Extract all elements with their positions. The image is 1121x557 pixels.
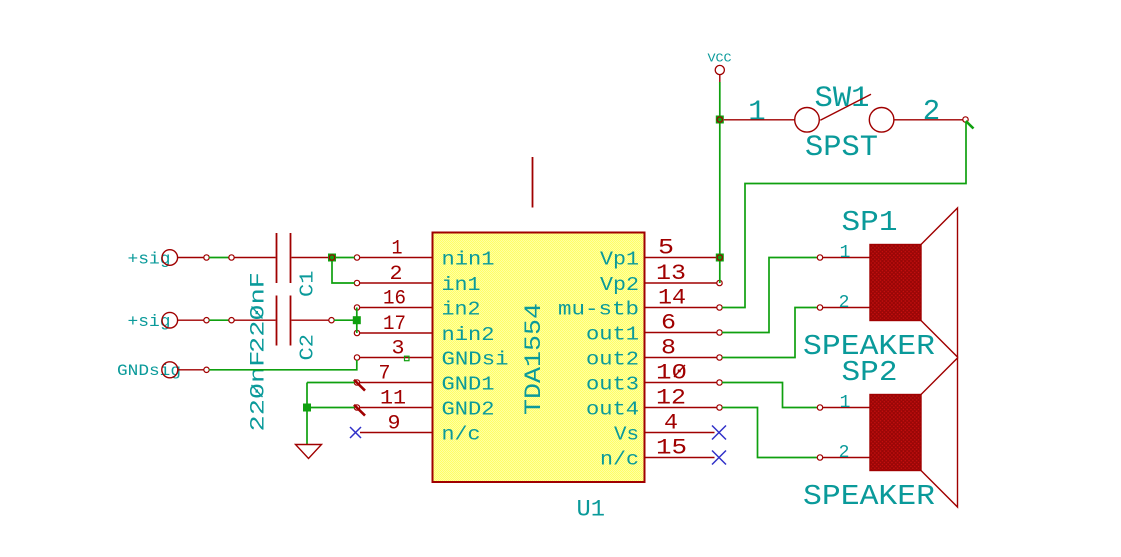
- svg-text:TDA1554: TDA1554: [521, 303, 547, 415]
- svg-text:out1: out1: [586, 324, 639, 346]
- svg-text:Vp1: Vp1: [600, 249, 639, 271]
- U1 right pin 6: [645, 311, 723, 336]
- U1 left pin 1: [354, 237, 432, 260]
- svg-text:C1: C1: [297, 271, 319, 298]
- wire GNDsig to pin3: [209, 360, 357, 370]
- U1 reference label: [577, 497, 606, 523]
- op-amp U1 TDA1554 body: [433, 233, 645, 483]
- U1 left pin names: [442, 249, 509, 446]
- power flag VCC: [708, 52, 732, 83]
- U1 right pin 8: [645, 336, 723, 361]
- U1 left pin 17: [354, 313, 432, 336]
- svg-text:out2: out2: [586, 349, 639, 371]
- U1 right pin names: [558, 249, 639, 471]
- svg-text:1: 1: [748, 96, 765, 129]
- U1 left pin 7: [354, 362, 433, 390]
- svg-text:12: 12: [656, 386, 686, 411]
- junction Vp1: [716, 254, 724, 262]
- svg-text:SP1: SP1: [842, 206, 898, 239]
- speaker SP1: [803, 206, 958, 363]
- svg-text:5: 5: [658, 236, 674, 261]
- svg-text:9: 9: [388, 412, 401, 435]
- C1 reference label: [297, 271, 319, 298]
- wire out3 to SP2 pin1: [722, 383, 818, 408]
- U1 right pin 4 no-connect: [645, 411, 727, 440]
- junction VCC / SW1: [716, 116, 724, 124]
- wire out1 to SP1 pin1: [722, 258, 818, 333]
- wire junction down to pin2: [332, 262, 355, 284]
- svg-text:1: 1: [840, 243, 851, 263]
- ground symbol: [296, 445, 322, 459]
- svg-text:13: 13: [656, 261, 686, 286]
- wire out4 to SP2 pin2: [722, 408, 818, 458]
- wire ground rail vertical: [306, 383, 308, 445]
- U1 value label TDA1554: [521, 303, 547, 415]
- svg-text:4: 4: [664, 411, 678, 436]
- junction at ground rail: [303, 404, 311, 412]
- svg-text:nin1: nin1: [442, 249, 495, 271]
- U1 left pin 11: [354, 387, 433, 415]
- svg-text:mu-stb: mu-stb: [558, 299, 639, 321]
- wire junction up to pin16 down to pin17: [356, 308, 358, 334]
- svg-text:VCC: VCC: [708, 52, 732, 66]
- svg-text:14: 14: [658, 286, 686, 311]
- U1 left pin 2: [354, 263, 432, 286]
- wire junction to pin1: [336, 257, 355, 259]
- capacitor C1: [234, 233, 335, 283]
- switch SW1: [724, 82, 968, 165]
- svg-text:in1: in1: [442, 274, 481, 296]
- svg-text:2: 2: [923, 95, 940, 128]
- svg-text:11: 11: [380, 387, 406, 410]
- wire entry slash at SW1 pin2: [966, 121, 974, 129]
- wire junction to pin11: [311, 407, 355, 409]
- U1 right pin 5: [645, 236, 718, 261]
- svg-text:SPEAKER: SPEAKER: [803, 480, 935, 513]
- capacitor C2: [234, 296, 334, 346]
- wire +sig lower to C2: [209, 318, 234, 323]
- svg-text:C2: C2: [297, 334, 319, 361]
- junction at pins 16/17: [353, 316, 361, 324]
- net anchor square on pin3: [405, 356, 410, 361]
- C2 reference label: [297, 334, 319, 361]
- C2 value label 220nF: [248, 351, 271, 432]
- svg-text:SP2: SP2: [842, 356, 898, 389]
- wire +sig upper to C1: [209, 255, 234, 260]
- svg-text:6: 6: [661, 311, 676, 336]
- svg-text:GND2: GND2: [442, 399, 495, 421]
- wire pin7 to ground rail: [307, 382, 355, 384]
- svg-text:Vp2: Vp2: [600, 274, 639, 296]
- svg-text:10: 10: [656, 361, 687, 386]
- svg-text:nin2: nin2: [442, 324, 495, 346]
- svg-text:15: 15: [656, 436, 687, 461]
- wire C2 to junction: [234, 319, 357, 321]
- U1 right pin 10: [645, 361, 723, 386]
- unconnected wire stub above U1: [532, 157, 534, 208]
- svg-text:17: 17: [383, 313, 406, 336]
- U1 left pin 3: [354, 337, 432, 360]
- speaker SP2: [803, 356, 958, 513]
- svg-text:n/c: n/c: [600, 449, 639, 471]
- U1 right pin 14: [645, 286, 723, 311]
- connector +sig lower: [128, 312, 210, 332]
- svg-text:2: 2: [839, 443, 850, 463]
- U1 left pin 9 no-connect: [350, 412, 433, 438]
- U1 left pin 16: [354, 287, 432, 310]
- connector GNDsig: [117, 362, 209, 380]
- svg-text:Vs: Vs: [614, 424, 639, 446]
- svg-text:U1: U1: [577, 497, 606, 523]
- svg-text:1: 1: [840, 393, 851, 413]
- svg-text:GNDsi: GNDsi: [442, 349, 509, 371]
- svg-text:GND1: GND1: [442, 374, 495, 396]
- svg-text:in2: in2: [442, 299, 481, 321]
- wire VCC down to Vp1/Vp2: [719, 82, 721, 283]
- U1 right pin 13: [645, 261, 723, 286]
- svg-text:8: 8: [661, 336, 676, 361]
- svg-text:out3: out3: [586, 374, 639, 396]
- C1 value label 220nF: [248, 272, 271, 353]
- svg-text:2: 2: [839, 293, 850, 313]
- wire SW1 pin2 to mu-stb: [722, 122, 966, 308]
- svg-text:out4: out4: [586, 399, 639, 421]
- connector +sig upper: [128, 250, 210, 270]
- svg-text:3: 3: [392, 337, 405, 360]
- junction at C1 output: [328, 254, 336, 262]
- svg-text:220nF: 220nF: [248, 351, 271, 432]
- U1 right pin 12: [645, 386, 723, 411]
- svg-text:2: 2: [390, 263, 403, 286]
- svg-text:1: 1: [392, 237, 403, 260]
- wire out2 to SP1 pin2: [722, 308, 818, 358]
- svg-text:SPST: SPST: [805, 131, 878, 165]
- svg-text:7: 7: [379, 362, 391, 385]
- U1 right pin 15 no-connect: [645, 436, 727, 465]
- svg-text:n/c: n/c: [442, 424, 481, 446]
- svg-text:220nF: 220nF: [248, 272, 271, 353]
- svg-text:16: 16: [383, 287, 406, 310]
